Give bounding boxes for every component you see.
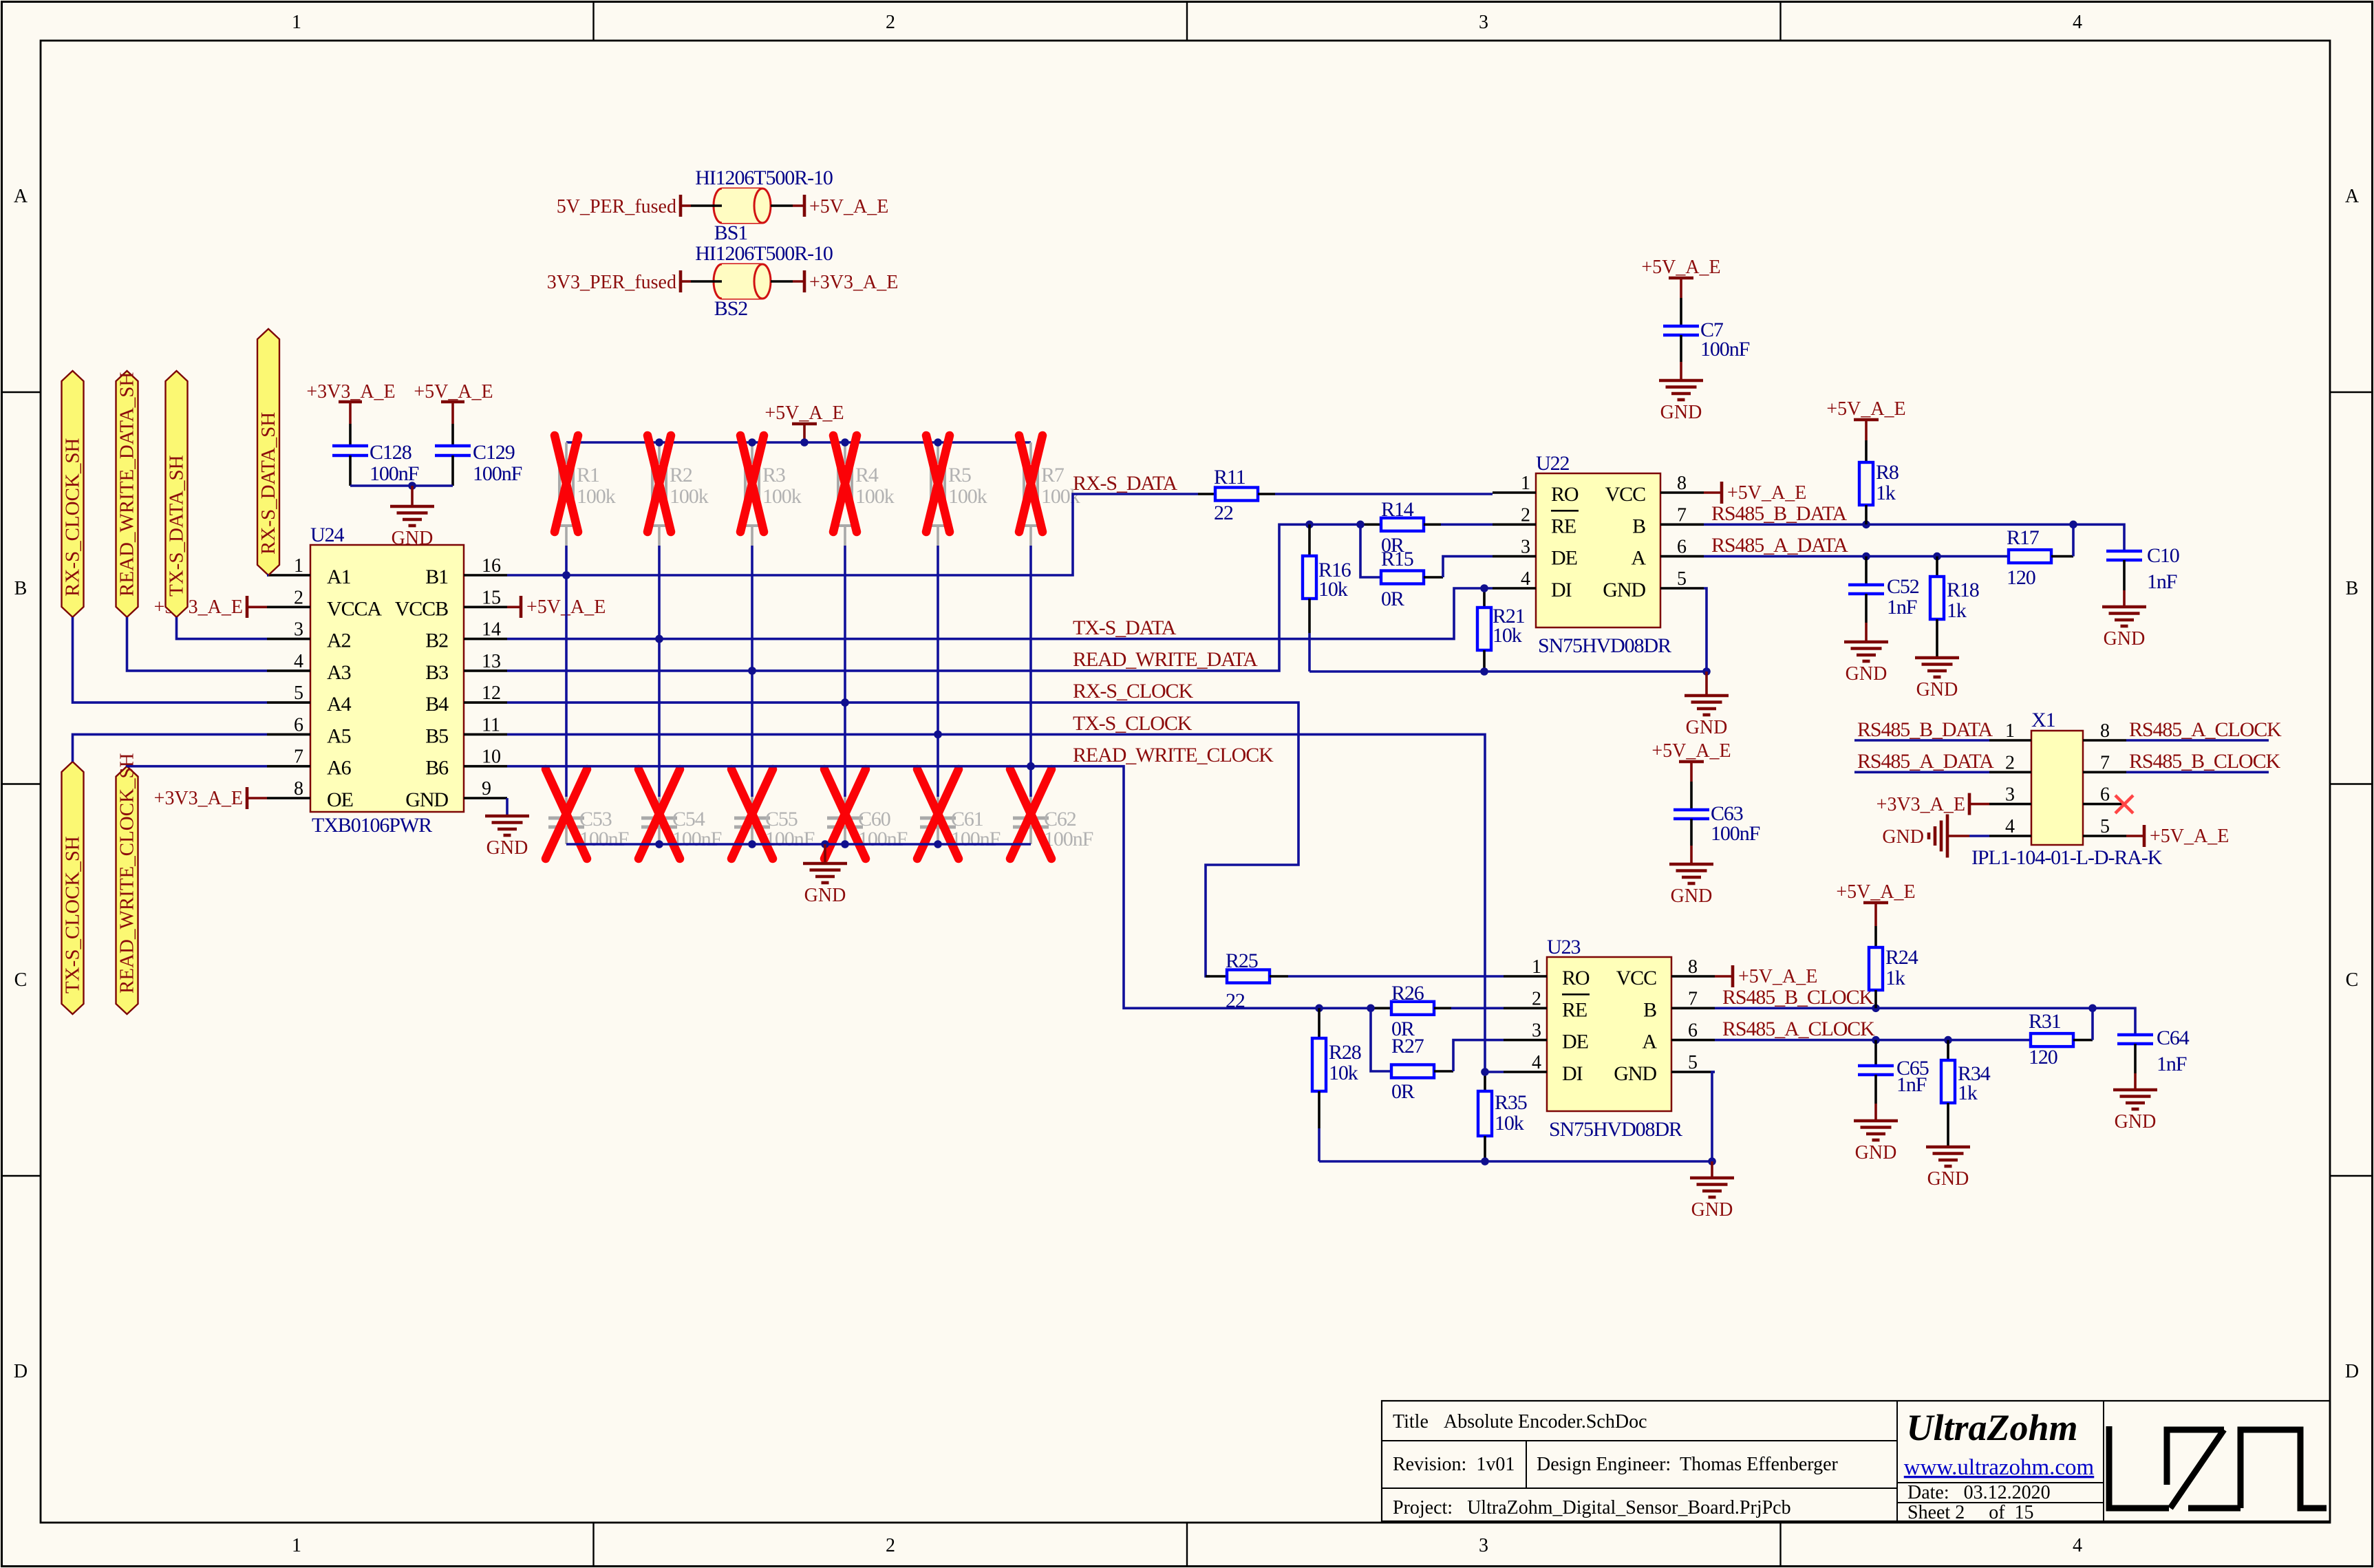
wire net RS485_A_CLOCK [1715,1039,2031,1042]
svg-text:VCC: VCC [1605,483,1645,506]
svg-text:10k: 10k [1329,1062,1358,1084]
svg-text:B: B [14,578,28,599]
svg-text:RS485_B_DATA: RS485_B_DATA [1711,502,1848,525]
junction [1944,1036,1952,1044]
svg-text:2: 2 [886,12,895,33]
junction [1862,521,1870,529]
svg-text:4: 4 [1521,568,1530,590]
svg-text:8: 8 [1688,956,1698,978]
svg-text:R26: R26 [1391,982,1424,1005]
resistor R17 120 [2009,550,2051,563]
zone ticks right [2330,391,2373,393]
svg-text:3V3_PER_fused: 3V3_PER_fused [547,272,676,293]
wire [350,484,453,487]
wire [1969,835,1989,837]
svg-text:1: 1 [1532,956,1541,978]
svg-text:22: 22 [1214,502,1233,524]
svg-text:A6: A6 [327,757,352,780]
svg-text:100k: 100k [762,485,802,508]
svg-text:Sheet 2 of 15: Sheet 2 of 15 [1907,1502,2034,1523]
wire [751,546,753,797]
resistor R26 0R [1371,1007,1391,1010]
svg-text:R5: R5 [948,464,971,486]
capacitor C62 100nF (not fitted) [1029,797,1032,817]
wire [771,280,793,283]
junction [1481,1157,1489,1166]
wire [565,546,568,797]
wire [349,424,352,445]
U23 pin 5 GND [1671,1071,1715,1073]
svg-text:4: 4 [294,651,303,672]
svg-text:16: 16 [482,555,501,577]
svg-text:100nF: 100nF [951,828,1001,850]
svg-text:7: 7 [294,747,303,768]
port TX-S_CLOCK_SH [62,762,84,1014]
svg-text:B1: B1 [425,566,448,588]
svg-text:B2: B2 [425,630,448,652]
wire [1705,672,1708,696]
U24 pin 11 B5 [464,733,507,736]
ground [485,815,529,818]
svg-text:8: 8 [2100,720,2110,742]
wire net READ_WRITE_CLOCK (B6) [507,766,1319,1009]
svg-text:READ_WRITE_CLOCK: READ_WRITE_CLOCK [1073,744,1274,766]
wire net RX-S_DATA (B1) [507,494,1198,575]
svg-text:R27: R27 [1391,1035,1424,1057]
no-fit cross R1 [555,436,578,532]
junction [841,840,849,848]
svg-text:+5V_A_E: +5V_A_E [2150,826,2229,847]
svg-text:GND: GND [405,788,448,811]
wire [1424,576,1443,579]
wire U22 pin5 to rail [1704,588,1707,672]
wire [1711,1161,1713,1178]
resistor R8 1k [1865,440,1868,462]
U23 RE overline [1562,994,1590,996]
svg-text:C64: C64 [2157,1027,2190,1049]
wire [1690,762,1693,782]
svg-text:GND: GND [1614,1062,1656,1085]
svg-text:Title: Title [1393,1411,1429,1432]
svg-text:3: 3 [2005,784,2015,806]
resistor R14 0R [1360,523,1381,526]
svg-text:Thomas Effenberger: Thomas Effenberger [1680,1454,1839,1475]
U24 pin 8 OE [267,797,310,799]
svg-text:+3V3_A_E: +3V3_A_E [809,272,898,293]
wire [681,204,691,207]
svg-text:Design Engineer:: Design Engineer: [1537,1454,1671,1475]
svg-text:GND: GND [1855,1142,1897,1163]
svg-text:3: 3 [1521,537,1530,558]
svg-text:RX-S_DATA_SH: RX-S_DATA_SH [257,412,279,555]
ground [1926,1146,1970,1149]
svg-text:5: 5 [294,683,303,704]
svg-text:100k: 100k [948,485,987,508]
svg-text:RE: RE [1562,998,1587,1021]
X1 pin 8 [2083,739,2126,742]
junction [748,667,756,675]
capacitor C65 1nF [1874,1040,1877,1065]
resistor R5 100k (not fitted) [937,442,939,462]
resistor R34 1k [1947,1040,1949,1060]
svg-text:R18: R18 [1947,579,1979,601]
resistor R11 22 [1215,488,1258,501]
svg-text:100nF: 100nF [370,462,419,485]
svg-text:3: 3 [1532,1020,1541,1042]
U23 pin 2 RE [1504,1007,1547,1010]
port READ_WRITE_DATA_SH [116,371,138,617]
wire net RS485_A_DATA [1704,555,2009,558]
svg-text:B5: B5 [425,724,448,747]
svg-text:TX-S_CLOCK: TX-S_CLOCK [1073,712,1193,735]
junction [1702,667,1711,676]
zone ticks top [592,2,594,41]
junction [1933,552,1941,561]
svg-text:D: D [2345,1361,2359,1382]
junction [408,482,416,490]
svg-text:13: 13 [482,651,501,672]
resistor R7 100k (not fitted) [1029,442,1032,462]
ground [1915,656,1959,660]
svg-text:GND: GND [1846,663,1888,685]
svg-text:RS485_A_CLOCK: RS485_A_CLOCK [1722,1018,1875,1040]
svg-text:1: 1 [292,1535,301,1556]
wire [451,455,454,486]
svg-text:GND: GND [486,837,528,859]
junction [655,840,663,848]
svg-text:RS485_B_CLOCK: RS485_B_CLOCK [2129,750,2281,773]
svg-text:7: 7 [1677,504,1687,526]
svg-text:A4: A4 [327,693,352,716]
svg-text:8: 8 [1677,473,1687,494]
svg-text:C129: C129 [473,441,515,464]
ground [1690,1177,1734,1180]
U22 pin 8 VCC [1660,491,1704,494]
svg-text:1nF: 1nF [1896,1073,1927,1096]
junction [1708,1157,1716,1166]
svg-text:U23: U23 [1547,936,1580,958]
svg-text:120: 120 [2029,1046,2057,1068]
junction [1356,521,1365,529]
svg-text:C: C [14,969,28,991]
IC U22 SN75HVD08DR [1536,473,1660,627]
U24 pin 9 GND [464,797,507,799]
junction [655,438,663,447]
port RX-S_DATA_SH [257,329,279,575]
wire net RX-S_CLOCK (B4) [507,702,1298,976]
svg-text:GND: GND [1927,1168,1969,1190]
svg-text:6: 6 [294,714,303,735]
capacitor C60 100nF (not fitted) [844,797,846,817]
svg-text:6: 6 [1677,537,1687,558]
junction [841,438,849,447]
power +5V_A_E (U23 VCC) [1715,975,1733,978]
U22 pin 4 DI [1493,587,1536,590]
svg-text:GND: GND [392,528,434,549]
svg-text:GND: GND [1916,679,1958,700]
junction [1027,762,1035,771]
svg-text:B: B [1632,515,1645,537]
wire +5V bus (matrix top) [566,441,1031,444]
capacitor C64 1nF [2117,1033,2153,1037]
svg-text:A2: A2 [327,630,351,652]
resistor R2 100k (not fitted) [658,442,661,462]
ground [390,505,434,508]
svg-text:+5V_A_E: +5V_A_E [1738,966,1817,987]
svg-text:RE: RE [1551,515,1576,537]
U23 pin 8 VCC [1671,975,1715,978]
wire [1258,493,1275,495]
wire [824,844,826,863]
svg-text:9: 9 [482,778,491,799]
junction [1305,521,1314,529]
svg-text:SN75HVD08DR: SN75HVD08DR [1549,1118,1682,1141]
svg-text:GND: GND [1603,579,1645,601]
U23 pin 7 B [1671,1007,1715,1010]
junction [562,571,570,579]
svg-text:B4: B4 [425,693,449,716]
X1 pin 2 [1989,771,2031,774]
junction [934,840,942,848]
svg-text:B6: B6 [425,757,449,780]
svg-text:10k: 10k [1318,578,1348,601]
capacitor C61 100nF (not fitted) [937,797,939,817]
X1 pin 3 [1989,803,2031,806]
svg-text:6: 6 [2100,784,2110,806]
wire [681,280,691,283]
svg-text:DI: DI [1551,579,1572,601]
svg-text:R24: R24 [1885,946,1918,969]
wire [1680,278,1682,298]
wire R15 branch [1360,524,1381,577]
wire port READ_WRITE_CLOCK_SH to U24 A6 [127,765,268,768]
U24 pin 6 A5 [267,733,310,736]
svg-text:RS485_A_CLOCK: RS485_A_CLOCK [2129,718,2282,741]
svg-text:2: 2 [2005,752,2015,773]
U22 pin 3 DE [1493,555,1536,558]
svg-text:GND: GND [2115,1111,2157,1132]
U22 pin 7 B [1660,523,1704,526]
wire [1690,819,1693,846]
ground [2102,605,2146,609]
svg-text:7: 7 [1688,988,1698,1009]
svg-text:4: 4 [2073,1535,2082,1556]
svg-text:R8: R8 [1876,461,1899,484]
svg-text:2: 2 [1521,504,1530,526]
wire R27 branch [1371,1008,1391,1071]
svg-text:TX-S_DATA_SH: TX-S_DATA_SH [166,455,188,597]
svg-text:2: 2 [1532,988,1541,1009]
svg-text:+5V_A_E: +5V_A_E [1727,482,1806,504]
svg-text:0R: 0R [1391,1080,1415,1103]
junction [1481,1068,1489,1076]
resistor R15 0R [1381,571,1424,584]
wire [2051,555,2073,558]
svg-text:R14: R14 [1381,498,1414,521]
power +5V_A_E (U24 VCCB) [507,605,521,608]
svg-text:10k: 10k [1495,1112,1524,1135]
svg-text:5V_PER_fused: 5V_PER_fused [557,196,676,217]
no-fit cross C53 [546,769,587,859]
svg-text:+3V3_A_E: +3V3_A_E [306,381,395,402]
svg-text:6: 6 [1688,1020,1698,1042]
svg-text:+3V3_A_E: +3V3_A_E [154,788,243,809]
wire matrix bottom bus [566,843,1031,846]
svg-text:RS485_A_DATA: RS485_A_DATA [1711,534,1848,557]
resistor R27 0R [1391,1065,1434,1078]
no connect X1 pin6 [2115,795,2133,813]
svg-text:DI: DI [1562,1062,1583,1085]
IC U24 TXB0106PWR [310,545,464,812]
svg-text:1: 1 [294,555,303,577]
junction [748,438,756,447]
no-fit cross C61 [917,769,959,859]
no-fit cross C54 [639,769,680,859]
svg-text:R15: R15 [1381,548,1413,570]
U24 pin 13 B3 [464,669,507,672]
resistor R3 100k (not fitted) [751,442,753,462]
connector X1 IPL1-104-01-L-D-RA-K [2031,731,2083,845]
svg-text:GND: GND [1660,402,1702,423]
wire [1319,1007,1371,1010]
svg-text:100nF: 100nF [858,828,908,850]
junction [1862,552,1870,561]
svg-text:VCCB: VCCB [395,597,448,620]
svg-text:2: 2 [886,1535,895,1556]
svg-text:RX-S_CLOCK: RX-S_CLOCK [1073,680,1193,702]
wire [1680,335,1682,362]
zone ticks left [2,391,41,393]
U22 pin 6 A [1660,555,1704,558]
svg-text:U22: U22 [1536,452,1569,475]
wire port RX-S_DATA_SH to U24 A1 [267,574,268,577]
no-fit cross R3 [740,436,764,532]
resistor R25 22 [1206,975,1227,978]
svg-text:BS2: BS2 [714,297,747,320]
ground [1844,641,1888,644]
junction [655,635,663,643]
wire net RS485_A_CLOCK (X1) [2126,739,2269,742]
svg-text:5: 5 [1677,568,1687,590]
svg-text:1: 1 [1521,473,1530,494]
svg-text:R2: R2 [670,464,692,486]
svg-text:DE: DE [1562,1031,1588,1053]
svg-text:+5V_A_E: +5V_A_E [809,196,888,217]
svg-text:RX-S_CLOCK_SH: RX-S_CLOCK_SH [62,438,84,597]
wire net RS485_B_DATA [1704,524,2124,550]
svg-text:VCCA: VCCA [327,597,382,620]
svg-text:1k: 1k [1876,482,1896,504]
X1 pin 6 [2083,803,2126,806]
svg-text:10: 10 [482,747,501,768]
wire U23 ground rail [1319,1160,1712,1163]
U23 pin 3 DE [1504,1039,1547,1042]
power +5V_A_E [803,195,806,217]
svg-text:A1: A1 [327,566,351,588]
power +5V_A_E (U22 VCC) [1704,491,1722,494]
svg-text:IPL1-104-01-L-D-RA-K: IPL1-104-01-L-D-RA-K [1971,846,2163,869]
svg-text:GND: GND [1691,1199,1733,1221]
svg-text:4: 4 [1532,1052,1541,1073]
svg-text:4: 4 [2005,816,2015,837]
X1 pin 1 [1989,739,2031,742]
wire [658,546,661,797]
wire net RS485_B_DATA (X1) [1854,739,1989,742]
U24 pin 1 A1 [267,574,310,577]
capacitor C10 1nF [2106,550,2142,553]
svg-text:15: 15 [482,587,501,608]
junction [2088,1005,2097,1013]
junction [841,698,849,707]
junction [1480,584,1488,592]
junction [748,840,756,848]
no-fit cross R5 [926,436,950,532]
resistor R16 10k [1308,524,1311,556]
title block frame [1382,1401,2330,1521]
svg-text:B: B [2346,578,2359,599]
svg-text:1nF: 1nF [1887,596,1917,619]
power +3V3_A_E [803,270,806,292]
junction [934,731,942,739]
svg-text:OE: OE [327,788,353,811]
wire [411,486,414,506]
no-fit cross C55 [731,769,773,859]
svg-text:1nF: 1nF [2157,1053,2187,1075]
U24 pin 16 B1 [464,574,507,577]
port READ_WRITE_CLOCK_SH [116,766,138,1014]
svg-text:R31: R31 [2029,1010,2061,1033]
no-fit cross C60 [824,769,866,859]
junction [841,698,849,707]
svg-text:READ_WRITE_CLOCK_SH: READ_WRITE_CLOCK_SH [116,753,138,994]
port TX-S_DATA_SH [166,371,188,617]
U22 RE overline [1551,510,1579,512]
ground [1685,694,1729,698]
svg-text:100nF: 100nF [1700,338,1750,361]
U24 pin 2 VCCA [267,605,310,608]
capacitor C54 100nF (not fitted) [658,797,661,817]
svg-text:R35: R35 [1495,1091,1527,1114]
svg-text:GND: GND [1686,717,1728,738]
resistor R4 100k (not fitted) [844,442,846,462]
wire [451,424,454,445]
svg-text:C: C [2346,969,2359,991]
capacitor C55 100nF (not fitted) [751,797,753,817]
svg-text:100nF: 100nF [579,828,629,850]
svg-text:R28: R28 [1329,1041,1361,1064]
svg-text:+5V_A_E: +5V_A_E [1651,740,1731,762]
svg-text:www.ultrazohm.com: www.ultrazohm.com [1904,1455,2095,1480]
svg-text:U24: U24 [310,524,344,546]
svg-text:GND: GND [804,885,846,906]
junction [1872,1036,1880,1044]
U23 pin 6 A [1671,1039,1715,1042]
no-fit cross R7 [1019,436,1042,532]
wire net TX-S_DATA (B2) [507,588,1493,639]
resistor R35 10k [1484,1072,1486,1091]
junction [1367,1005,1375,1013]
wire U24 pin9 to ground [506,798,509,816]
junction [821,840,829,848]
svg-text:120: 120 [2007,566,2035,589]
svg-text:C10: C10 [2147,544,2179,567]
no-fit cross C62 [1010,769,1051,859]
svg-text:RO: RO [1562,967,1590,989]
capacitor C128 [332,444,368,448]
svg-text:X1: X1 [2031,709,2055,731]
svg-text:100nF: 100nF [1711,822,1760,845]
IC U23 SN75HVD08DR [1547,957,1671,1111]
